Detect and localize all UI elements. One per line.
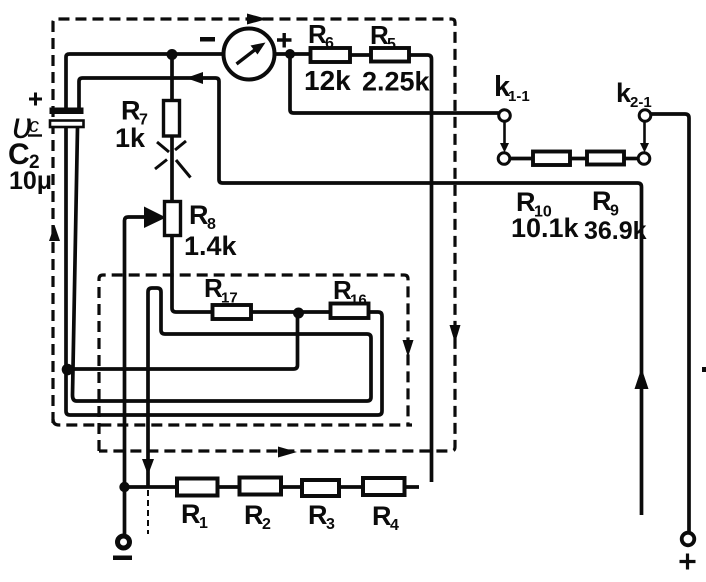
junction node left — [62, 364, 74, 376]
switch k2-1 arrow — [643, 122, 646, 145]
meter M1 — [224, 29, 275, 80]
resistor R1 — [177, 479, 218, 496]
wire R5 right corner down long vertical — [409, 55, 432, 482]
resistor R17 — [213, 305, 252, 319]
switch k1-1 bottom contact — [498, 153, 510, 165]
arrow down on inner box right dashed border — [403, 340, 414, 357]
resistor R7 — [164, 101, 180, 137]
minus sign meter — [200, 37, 215, 42]
wire R6-R5 link — [350, 53, 371, 57]
svg-text:10μ: 10μ — [9, 167, 52, 195]
arrow right on lower dashed line — [278, 447, 297, 458]
svg-text:3: 3 — [326, 516, 335, 533]
wire R9 to k2-1 bottom — [624, 157, 638, 161]
wire top horizontal from capacitor to meter node — [66, 54, 311, 108]
resistor R5 — [371, 48, 409, 62]
svg-text:1k: 1k — [115, 123, 146, 153]
arrow up on left dashed border — [49, 225, 60, 241]
dashed inner box — [99, 275, 408, 451]
resistor R10 — [533, 152, 570, 166]
dashed outer border left top right — [53, 19, 455, 451]
svg-text:16: 16 — [350, 292, 367, 309]
arrow left on second horizontal wire — [186, 72, 203, 84]
svg-text:1-1: 1-1 — [508, 88, 530, 105]
svg-text:R: R — [308, 500, 328, 530]
switch k2-1 bottom contact — [638, 153, 650, 165]
X break symbol — [155, 141, 191, 178]
svg-text:36.9k: 36.9k — [584, 217, 647, 245]
resistor R16 — [331, 304, 369, 319]
resistor R6 — [311, 48, 351, 62]
switch k2-1 top contact — [639, 110, 651, 122]
resistor R3 — [302, 480, 339, 496]
capacitor C2 top plate — [50, 108, 84, 115]
wire k1-1 to R10 — [511, 157, 534, 161]
wire junction horizontal to R17R16 junction — [66, 313, 298, 369]
arrow up on long vertical line right side — [635, 368, 649, 389]
junction node bottom — [119, 482, 129, 492]
wire R1-R4 row — [125, 485, 420, 489]
R8 wiper arrow — [144, 207, 166, 229]
svg-text:R: R — [372, 501, 392, 531]
svg-text:R: R — [244, 500, 264, 530]
wire R8 wiper down to minus terminal — [125, 217, 145, 535]
svg-text:R: R — [592, 186, 612, 216]
svg-text:12k: 12k — [304, 65, 351, 96]
wire R7-R8 chain vertical down to R17 — [172, 54, 331, 312]
svg-text:1.4k: 1.4k — [184, 231, 238, 261]
arrow down on hairpin line above R1 row — [142, 459, 154, 475]
resistor R2 — [240, 478, 282, 495]
resistor R4 — [363, 478, 405, 495]
resistor R9 — [587, 152, 624, 165]
svg-text:R: R — [189, 200, 209, 230]
dashed bottom line H3 — [53, 419, 412, 425]
wire inner loop capacitor to hairpin to R1 row — [73, 128, 372, 487]
resistor R8 potentiometer — [165, 202, 181, 236]
switch k1-1 arrow — [503, 122, 506, 145]
svg-text:c: c — [29, 115, 39, 137]
terminal plus bottom right — [682, 533, 695, 546]
wire k2-1 top right corner down to plus terminal — [651, 114, 689, 533]
wire R10 to R9 — [570, 157, 587, 161]
wire meter plus node down and right to k1-1 — [290, 54, 499, 113]
arrow down on outer right dashed border — [450, 325, 461, 343]
svg-text:10.1k: 10.1k — [511, 213, 580, 243]
svg-text:2: 2 — [262, 516, 271, 533]
wire R16 right corner down and bottom return to capacitor — [66, 128, 382, 415]
wire faint continuation below R1 row — [147, 490, 149, 534]
junction node R17 R16 — [293, 308, 304, 319]
svg-text:R: R — [121, 96, 141, 126]
terminal minus bottom left — [118, 536, 130, 548]
svg-text:4: 4 — [390, 517, 399, 534]
edge mark — [702, 367, 706, 372]
svg-text:1: 1 — [199, 515, 208, 532]
svg-text:2.25k: 2.25k — [362, 67, 431, 97]
meter needle — [237, 49, 257, 64]
svg-text:R: R — [181, 499, 201, 529]
svg-text:2-1: 2-1 — [630, 94, 652, 111]
svg-text:6: 6 — [325, 35, 334, 52]
switch k1-1 top contact — [499, 110, 511, 122]
junction node meter plus — [285, 49, 295, 59]
svg-text:17: 17 — [221, 290, 238, 307]
plus sign meter — [277, 33, 292, 48]
svg-text:5: 5 — [387, 36, 396, 53]
capacitor C2 bottom plate — [50, 121, 84, 128]
plus sign capacitor — [29, 93, 42, 106]
wire second horizontal with corner down and long line to bottom right — [79, 78, 642, 515]
junction node top left — [167, 49, 178, 60]
arrow right on top dashed border — [247, 14, 267, 25]
